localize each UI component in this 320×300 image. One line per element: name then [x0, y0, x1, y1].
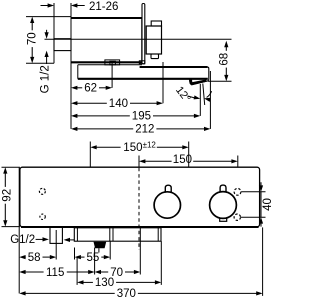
svg-text:62: 62	[84, 83, 97, 95]
svg-text:40: 40	[262, 198, 274, 211]
svg-text:92: 92	[1, 189, 13, 202]
svg-text:G1/2: G1/2	[10, 234, 35, 246]
svg-text:130: 130	[95, 277, 114, 289]
svg-text:±12: ±12	[143, 141, 157, 150]
svg-text:140: 140	[109, 98, 128, 110]
svg-text:212: 212	[135, 124, 154, 136]
svg-text:58: 58	[28, 252, 41, 264]
svg-text:115: 115	[46, 267, 64, 279]
svg-text:70: 70	[27, 32, 39, 45]
svg-text:150: 150	[123, 142, 142, 154]
svg-text:150: 150	[173, 154, 192, 166]
svg-text:195: 195	[132, 111, 151, 123]
svg-text:21-26: 21-26	[89, 1, 118, 13]
svg-text:G 1/2: G 1/2	[40, 65, 52, 93]
svg-text:370: 370	[117, 288, 136, 300]
svg-text:55: 55	[87, 252, 100, 264]
svg-text:68: 68	[219, 53, 231, 66]
